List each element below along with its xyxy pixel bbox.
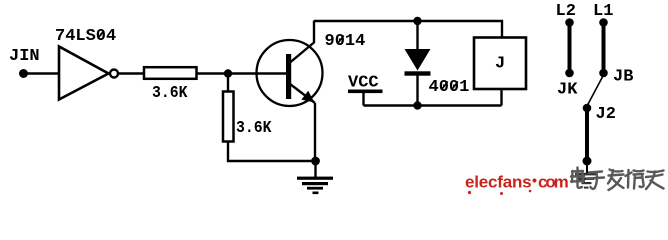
Q1 collector lead <box>290 21 314 63</box>
wire junction to R2 top <box>227 74 229 93</box>
svg-text:JK: JK <box>557 81 578 100</box>
junction node diode bottom <box>413 101 421 109</box>
relay contact L1-JB <box>599 18 608 77</box>
U1 output bubble <box>110 70 118 78</box>
svg-text:L1: L1 <box>593 2 613 21</box>
svg-text:JB: JB <box>613 68 633 87</box>
relay contact L2-JK <box>565 18 574 77</box>
contact pole J2 <box>585 108 589 161</box>
junction node diode top <box>413 17 421 25</box>
Q1 emitter arrow <box>301 91 314 103</box>
svg-text:4001: 4001 <box>429 78 470 97</box>
wire U1 output to R1 <box>118 72 144 74</box>
svg-text:J2: J2 <box>596 105 616 124</box>
Q1 base bar <box>286 54 291 99</box>
wire emitter down to ground junction <box>314 103 316 161</box>
node J2 <box>583 104 592 113</box>
svg-text:3.6K: 3.6K <box>236 119 272 138</box>
Q1 base wire inside <box>256 72 287 74</box>
wire relay bottom stub <box>500 89 502 106</box>
wire R1 to Q1 base <box>197 72 288 74</box>
svg-text:J: J <box>495 55 505 74</box>
junction node base <box>224 69 232 77</box>
armature wire JB to J2 <box>587 75 604 106</box>
svg-text:elecfans: elecfans <box>465 173 531 192</box>
wire R2 bottom to emitter ground junction <box>228 142 316 162</box>
svg-text:L2: L2 <box>556 2 576 21</box>
inverter U1 74LS04 <box>59 47 109 100</box>
bottom rail wire VCC to relay <box>364 104 502 106</box>
watermark elecfans.com <box>465 173 569 196</box>
junction node emitter-ground <box>311 157 320 166</box>
watermark chinese characters <box>571 168 664 191</box>
diode D1 4001 <box>405 21 431 106</box>
relay coil J box <box>474 38 526 90</box>
resistor R1 <box>144 67 197 79</box>
ground symbol (emitter) <box>297 161 333 194</box>
node JIN input terminal <box>19 69 28 78</box>
wire JIN to U1 input <box>24 72 60 74</box>
resistor R2 <box>223 92 234 142</box>
svg-text:com: com <box>538 173 569 192</box>
svg-text:JIN: JIN <box>9 47 40 66</box>
svg-text:3.6K: 3.6K <box>152 84 188 103</box>
node J2 bottom <box>583 157 592 166</box>
Q1 emitter lead <box>290 84 315 103</box>
VCC power bar <box>348 90 383 94</box>
wire J2 to ground <box>586 161 588 173</box>
svg-text:74LS04: 74LS04 <box>55 27 116 46</box>
ground symbol (J2) <box>575 173 598 189</box>
transistor Q1 body circle <box>257 40 323 106</box>
svg-text:9014: 9014 <box>325 32 366 51</box>
top rail wire collector to relay <box>314 21 502 38</box>
wire VCC to bottom rail <box>362 93 364 106</box>
